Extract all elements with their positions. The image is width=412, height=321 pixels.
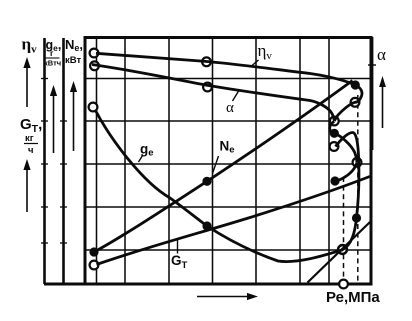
curve alpha [92,65,334,122]
label ge units fraction [44,48,61,68]
marker open M5 [330,142,339,151]
marker open alpha mid [203,83,212,92]
marker filled M7 [330,176,339,185]
marker filled ge-GT crossing [202,221,211,230]
pointer to etaV curve [252,60,259,66]
hook back stroke [335,163,357,182]
marker open thick M9 [338,245,347,254]
marker open M6 [353,158,362,167]
curve Ne [94,81,353,253]
dashed guide line 1 [343,177,345,283]
svg-text:ηv: ηv [22,35,38,56]
marker open M3 [330,117,339,126]
marker filled M8 [352,213,361,222]
marker open etaV left [90,49,99,58]
svg-text:кг: кг [25,133,34,144]
x-axis baseline extension [44,283,86,286]
marker open on axis M10 [339,280,348,289]
marker filled Ne left [89,247,98,256]
svg-text:ηv: ηv [258,41,273,62]
marker filled M4 [330,129,339,138]
svg-text:α: α [377,45,386,64]
alpha hook reversal [330,122,335,134]
svg-text:ge: ge [140,142,154,159]
arrow Pe axis bottom [197,293,258,300]
curve ge [96,111,359,262]
marker open etaV mid [202,57,211,66]
marker open GT left [90,261,99,270]
pointer to GT curve [177,240,179,254]
svg-text:ч: ч [28,145,34,156]
grid vertical lines [97,37,330,284]
label GT units fraction [24,133,38,156]
curve etaV [96,53,355,85]
svg-text:Ne: Ne [220,139,235,156]
svg-text:α: α [226,100,234,116]
grid horizontal lines [85,79,371,251]
axis line 1 (ge axis) [43,38,46,284]
svg-text:Ре,МПа: Ре,МПа [326,289,380,306]
svg-text:кВт: кВт [65,55,81,66]
marker open alpha left [90,61,99,70]
svg-text:кВтч: кВтч [44,59,61,68]
right border reinforcement [371,37,373,150]
arrow Ne axis [70,81,77,151]
svg-text:GT: GT [171,253,188,271]
svg-text:г: г [50,48,54,58]
pointer to Ne curve [213,156,219,174]
pointer to alpha curve [233,90,240,102]
marker filled Ne mid [202,177,211,186]
plot border frame [85,38,371,285]
marker open M2 [351,98,360,107]
tick on right border [368,64,376,66]
marker filled M1 [351,80,360,89]
curve GT [97,176,372,265]
dashed guide line 2 [357,95,359,283]
axis line 2 (Ne axis) [62,38,65,284]
arrow GT axis lower [23,159,30,212]
arrow etaV axis upper [23,57,30,107]
arrow alpha axis right [379,76,386,128]
hook to dashed limit [335,134,357,163]
pointer to ge curve [139,156,143,163]
svg-text:Ne,: Ne, [65,37,83,53]
tangent diagonal line [308,222,371,283]
etaV hook reversal [334,85,362,121]
arrow ge axis [50,85,57,153]
axis ticks [41,79,67,244]
marker open ge left [89,103,98,112]
